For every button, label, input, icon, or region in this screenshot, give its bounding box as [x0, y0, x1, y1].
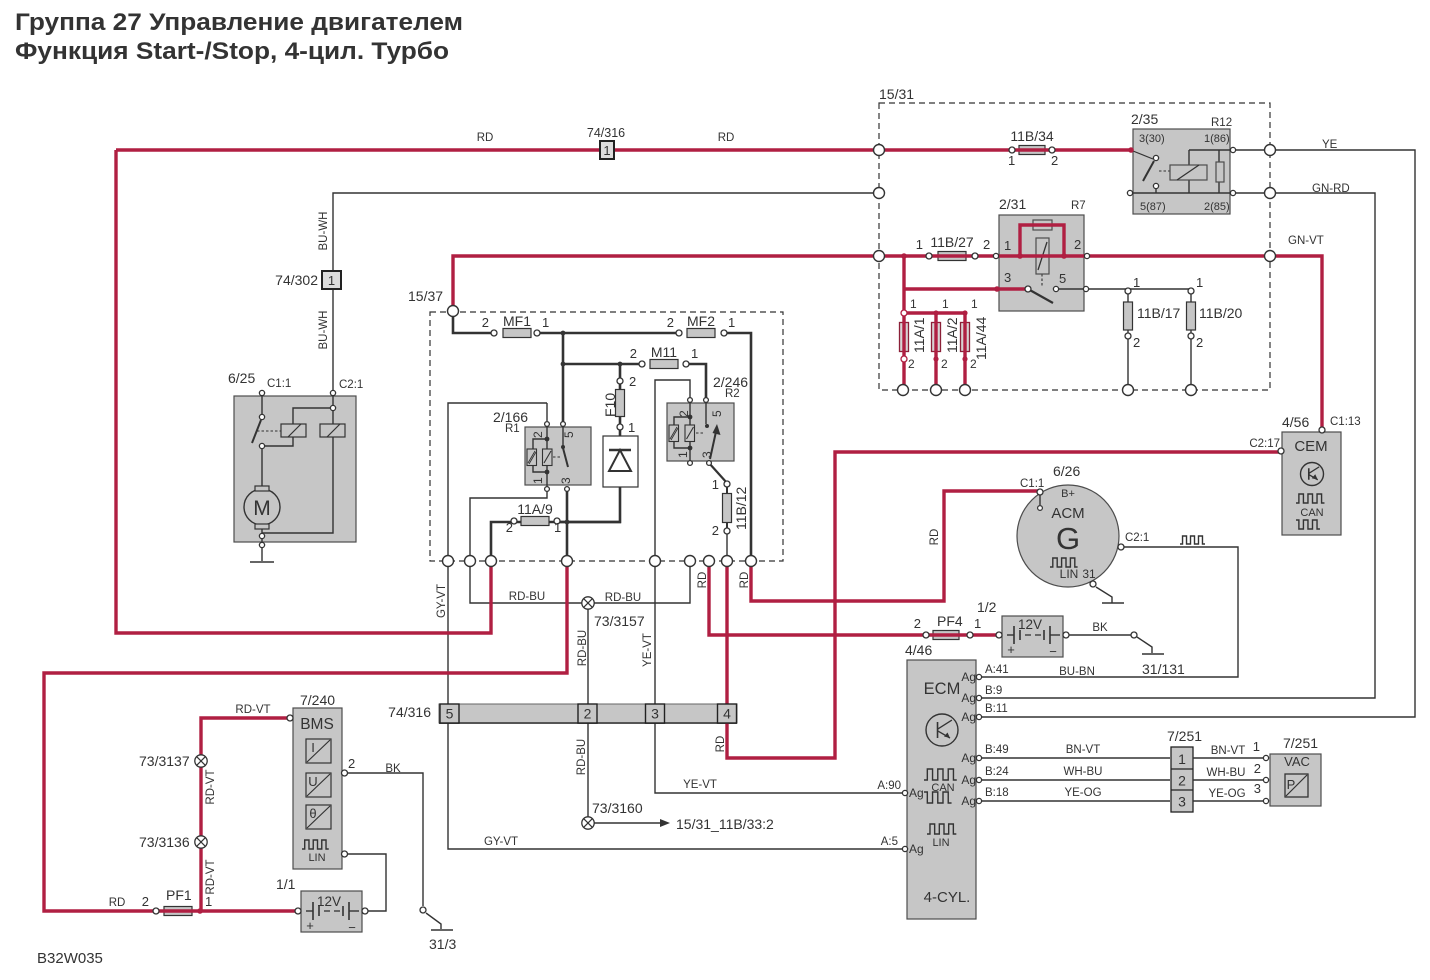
svg-text:B:24: B:24	[985, 766, 1009, 778]
svg-text:2: 2	[629, 374, 636, 389]
svg-text:7/251: 7/251	[1283, 735, 1318, 751]
svg-text:1: 1	[628, 420, 635, 435]
svg-text:2: 2	[531, 431, 545, 438]
svg-text:B:9: B:9	[985, 685, 1002, 697]
svg-text:74/316: 74/316	[587, 126, 625, 140]
svg-text:C2:1: C2:1	[1125, 532, 1149, 544]
svg-text:3: 3	[1254, 781, 1261, 796]
svg-text:5: 5	[446, 706, 454, 722]
svg-text:11A/1: 11A/1	[911, 317, 927, 353]
svg-text:GY-VT: GY-VT	[484, 836, 518, 848]
svg-text:RD-BU: RD-BU	[577, 630, 589, 666]
svg-text:11B/20: 11B/20	[1199, 305, 1243, 321]
svg-text:1: 1	[916, 237, 923, 252]
svg-text:RD: RD	[477, 132, 494, 144]
svg-text:1: 1	[1133, 275, 1140, 290]
svg-text:Ag: Ag	[961, 710, 976, 724]
svg-text:R2: R2	[725, 388, 740, 400]
svg-text:C1:13: C1:13	[1330, 416, 1361, 428]
svg-text:Ag: Ag	[961, 691, 976, 705]
svg-text:C1:1: C1:1	[1020, 478, 1044, 490]
svg-text:5(87): 5(87)	[1140, 201, 1166, 213]
svg-text:LIN: LIN	[932, 837, 949, 849]
svg-text:2: 2	[584, 706, 592, 722]
svg-text:15/37: 15/37	[408, 288, 443, 304]
svg-text:MF2: MF2	[687, 313, 715, 329]
svg-text:2: 2	[712, 523, 719, 538]
svg-text:2: 2	[1254, 761, 1261, 776]
svg-text:73/3160: 73/3160	[592, 800, 643, 816]
svg-text:2: 2	[914, 616, 921, 631]
svg-text:11A/9: 11A/9	[517, 501, 553, 517]
svg-text:CEM: CEM	[1294, 438, 1327, 455]
svg-text:YE: YE	[1322, 139, 1338, 151]
svg-text:YE-VT: YE-VT	[642, 633, 654, 667]
svg-text:74/302: 74/302	[275, 272, 318, 288]
svg-text:1: 1	[942, 297, 949, 311]
svg-text:1: 1	[603, 143, 610, 158]
svg-text:11B/17: 11B/17	[1137, 305, 1181, 321]
svg-text:2: 2	[941, 357, 948, 371]
svg-text:1: 1	[554, 520, 561, 535]
svg-text:B+: B+	[1061, 488, 1075, 500]
svg-text:BK: BK	[1092, 622, 1108, 634]
svg-text:31: 31	[1082, 567, 1096, 581]
svg-text:BN-VT: BN-VT	[1066, 744, 1101, 756]
svg-text:ACM: ACM	[1051, 505, 1084, 522]
svg-text:73/3137: 73/3137	[139, 753, 190, 769]
svg-text:2/35: 2/35	[1131, 111, 1158, 127]
svg-text:Ag: Ag	[909, 842, 924, 856]
svg-text:2: 2	[630, 346, 637, 361]
svg-text:YE-VT: YE-VT	[683, 779, 717, 791]
svg-text:4/56: 4/56	[1282, 414, 1309, 430]
svg-text:RD-BU: RD-BU	[576, 739, 588, 775]
svg-text:Группа 27 Управление двигателе: Группа 27 Управление двигателем	[15, 9, 463, 36]
svg-text:BU-WH: BU-WH	[318, 212, 330, 251]
svg-text:1: 1	[910, 297, 917, 311]
svg-text:4: 4	[723, 706, 731, 722]
svg-text:VAC: VAC	[1284, 754, 1310, 769]
svg-text:2: 2	[142, 894, 149, 909]
svg-text:B:49: B:49	[985, 744, 1009, 756]
svg-text:A:41: A:41	[985, 664, 1009, 676]
svg-text:−: −	[348, 920, 356, 935]
svg-text:BK: BK	[385, 763, 401, 775]
svg-text:LIN: LIN	[1060, 567, 1079, 581]
svg-text:PF4: PF4	[937, 613, 963, 629]
svg-text:3: 3	[559, 477, 573, 484]
svg-text:B:18: B:18	[985, 787, 1009, 799]
svg-text:RD-VT: RD-VT	[235, 704, 270, 716]
svg-text:WH-BU: WH-BU	[1064, 766, 1103, 778]
svg-text:74/316: 74/316	[388, 704, 431, 720]
svg-text:1(86): 1(86)	[1204, 133, 1230, 145]
svg-text:2: 2	[667, 315, 674, 330]
svg-text:B32W035: B32W035	[37, 950, 103, 967]
svg-text:RD: RD	[109, 897, 126, 909]
svg-text:11B/34: 11B/34	[1010, 128, 1054, 144]
svg-text:RD-BU: RD-BU	[509, 591, 545, 603]
svg-text:GN-VT: GN-VT	[1288, 235, 1324, 247]
svg-text:C2:17: C2:17	[1249, 438, 1280, 450]
svg-text:+: +	[306, 918, 314, 933]
svg-text:1/1: 1/1	[276, 876, 296, 892]
svg-text:6/26: 6/26	[1053, 463, 1080, 479]
svg-text:A:90: A:90	[877, 780, 901, 792]
svg-text:GY-VT: GY-VT	[436, 584, 448, 618]
svg-text:31/131: 31/131	[1142, 661, 1185, 677]
svg-text:Функция Start-/Stop, 4-цил. Ту: Функция Start-/Stop, 4-цил. Турбо	[15, 38, 449, 65]
svg-text:F10: F10	[602, 393, 618, 417]
svg-text:6/25: 6/25	[228, 370, 255, 386]
svg-text:BMS: BMS	[300, 716, 334, 733]
svg-text:73/3136: 73/3136	[139, 834, 190, 850]
svg-text:+: +	[1007, 642, 1015, 657]
svg-text:Ag: Ag	[961, 670, 976, 684]
svg-text:RD: RD	[929, 529, 941, 546]
svg-text:2: 2	[482, 315, 489, 330]
svg-text:11B/12: 11B/12	[733, 486, 749, 530]
svg-text:2: 2	[1133, 335, 1140, 350]
svg-text:3: 3	[651, 706, 659, 722]
svg-text:3: 3	[1004, 270, 1011, 285]
svg-text:73/3157: 73/3157	[594, 613, 645, 629]
svg-text:1: 1	[531, 477, 545, 484]
svg-text:1: 1	[712, 477, 719, 492]
svg-text:M: M	[253, 497, 271, 520]
svg-text:1: 1	[1004, 238, 1011, 253]
svg-text:C1:1: C1:1	[267, 378, 291, 390]
svg-text:1: 1	[1178, 751, 1186, 767]
svg-text:3: 3	[1178, 794, 1186, 810]
svg-text:4-CYL.: 4-CYL.	[924, 889, 971, 906]
svg-text:1: 1	[328, 273, 335, 288]
svg-text:31/3: 31/3	[429, 936, 456, 952]
svg-text:12V: 12V	[317, 894, 341, 909]
svg-text:15/31: 15/31	[879, 86, 914, 102]
svg-text:RD: RD	[697, 572, 709, 589]
svg-text:12V: 12V	[1018, 617, 1042, 632]
svg-text:RD: RD	[718, 132, 735, 144]
svg-text:BU-BN: BU-BN	[1059, 666, 1095, 678]
svg-text:CAN: CAN	[931, 782, 954, 794]
svg-text:1: 1	[1196, 275, 1203, 290]
svg-text:2: 2	[1074, 237, 1081, 252]
svg-text:MF1: MF1	[503, 313, 531, 329]
svg-text:LIN: LIN	[308, 852, 325, 864]
svg-text:5: 5	[562, 431, 576, 438]
svg-text:15/31_11B/33:2: 15/31_11B/33:2	[676, 816, 774, 832]
svg-text:5: 5	[710, 410, 724, 417]
svg-text:YE-OG: YE-OG	[1064, 787, 1101, 799]
svg-text:U: U	[308, 774, 317, 789]
svg-text:−: −	[1049, 644, 1057, 659]
svg-text:P: P	[1287, 777, 1296, 792]
svg-text:Ag: Ag	[961, 751, 976, 765]
svg-text:PF1: PF1	[166, 887, 192, 903]
svg-text:Ag: Ag	[961, 794, 976, 808]
svg-text:1/2: 1/2	[977, 599, 997, 615]
svg-text:θ: θ	[309, 806, 316, 821]
svg-text:2: 2	[677, 410, 691, 417]
svg-text:CAN: CAN	[1300, 507, 1323, 519]
svg-text:1: 1	[676, 451, 690, 458]
svg-text:7/251: 7/251	[1167, 728, 1202, 744]
svg-text:RD: RD	[715, 736, 727, 753]
svg-text:1: 1	[542, 315, 549, 330]
svg-text:RD: RD	[739, 572, 751, 589]
svg-text:3: 3	[700, 451, 714, 458]
svg-text:WH-BU: WH-BU	[1207, 767, 1246, 779]
svg-text:2: 2	[506, 520, 513, 535]
svg-text:M11: M11	[651, 344, 677, 360]
svg-text:11A/2: 11A/2	[944, 317, 960, 353]
svg-text:R12: R12	[1211, 117, 1232, 129]
svg-text:11A/44: 11A/44	[973, 316, 989, 360]
svg-text:1: 1	[974, 616, 981, 631]
svg-text:2: 2	[1196, 335, 1203, 350]
svg-text:2(85): 2(85)	[1204, 201, 1230, 213]
svg-text:BN-VT: BN-VT	[1211, 745, 1246, 757]
svg-text:BU-WH: BU-WH	[318, 311, 330, 350]
svg-text:2: 2	[1178, 773, 1186, 789]
svg-text:RD-BU: RD-BU	[605, 592, 641, 604]
svg-text:GN-RD: GN-RD	[1312, 183, 1350, 195]
svg-text:1: 1	[971, 297, 978, 311]
svg-text:1: 1	[1008, 153, 1015, 168]
svg-text:G: G	[1056, 521, 1080, 556]
svg-text:1: 1	[205, 894, 212, 909]
svg-text:5: 5	[1059, 271, 1066, 286]
svg-text:11B/27: 11B/27	[930, 234, 974, 250]
svg-text:RD-VT: RD-VT	[205, 859, 217, 894]
svg-text:2: 2	[983, 237, 990, 252]
svg-text:1: 1	[728, 315, 735, 330]
svg-text:C2:1: C2:1	[339, 379, 363, 391]
svg-text:Ag: Ag	[961, 773, 976, 787]
svg-text:R1: R1	[505, 423, 520, 435]
svg-text:2: 2	[348, 756, 355, 771]
svg-text:3(30): 3(30)	[1139, 133, 1165, 145]
svg-text:2: 2	[908, 357, 915, 371]
svg-text:RD-VT: RD-VT	[205, 769, 217, 804]
svg-text:4/46: 4/46	[905, 642, 932, 658]
svg-text:YE-OG: YE-OG	[1208, 788, 1245, 800]
svg-text:Ag: Ag	[909, 786, 924, 800]
svg-text:A:5: A:5	[881, 836, 898, 848]
svg-text:1: 1	[691, 346, 698, 361]
svg-text:2: 2	[1051, 153, 1058, 168]
svg-text:2/31: 2/31	[999, 196, 1026, 212]
svg-text:R7: R7	[1071, 200, 1086, 212]
svg-text:7/240: 7/240	[300, 692, 335, 708]
svg-text:I: I	[311, 740, 315, 755]
svg-text:ECM: ECM	[924, 680, 961, 698]
svg-text:B:11: B:11	[985, 703, 1008, 715]
svg-text:1: 1	[1253, 739, 1260, 754]
